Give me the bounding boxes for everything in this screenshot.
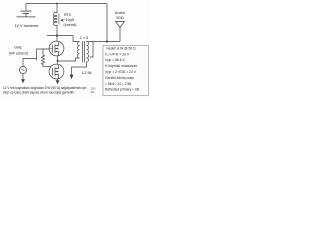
svg-text:12 V tek kaynaktan doğrudan 8: 12 V tek kaynaktan doğrudan 8 W (50 Ω) s… <box>3 86 87 90</box>
transistor Q2 body <box>49 64 64 79</box>
svg-text:Hedef: 8 W @ 50 Ω: Hedef: 8 W @ 50 Ω <box>107 46 137 50</box>
resistor R1 <box>42 49 45 67</box>
node dot rail/antenna <box>106 40 108 42</box>
node dot midpoint <box>57 60 59 62</box>
RFC core line <box>58 14 60 25</box>
signal source V1 <box>19 66 26 73</box>
ground bar under battery <box>17 16 36 18</box>
wire gate loop bottom <box>43 66 51 68</box>
spec box frame <box>103 46 149 96</box>
ground arrow under Q2 <box>56 80 60 84</box>
wire secondary top to antenna node <box>87 41 121 43</box>
wire drain node horizontal <box>47 35 73 37</box>
svg-text:V ₀=√P·R = 20 V: V ₀=√P·R = 20 V <box>105 52 130 56</box>
transformer T1 primary winding <box>77 42 79 58</box>
svg-text:12 V besleme: 12 V besleme <box>15 23 39 28</box>
ground arrow antenna return <box>70 75 74 79</box>
wire antenna lead <box>119 28 121 42</box>
wire gate loop left <box>37 49 50 61</box>
wire Q1 source to Q2 drain <box>57 56 59 65</box>
wire rail to RFC <box>56 4 58 14</box>
svg-text:3Ω: 3Ω <box>91 90 96 94</box>
svg-text:H köprüsü maksimum: H köprüsü maksimum <box>105 64 138 68</box>
transistor Q1 body <box>49 41 64 56</box>
svg-text:V pp = 56.6 V: V pp = 56.6 V <box>105 58 125 62</box>
antenna ANT symbol <box>116 22 125 28</box>
transformer T1 core <box>81 41 83 63</box>
spec box text <box>105 46 140 91</box>
svg-text:(RF sürücü): (RF sürücü) <box>9 51 28 55</box>
wire to transformer primary top <box>73 36 80 42</box>
svg-text:1 × 6: 1 × 6 <box>80 36 88 40</box>
svg-text:= 56.6 / 24 = 2.56: = 56.6 / 24 = 2.56 <box>105 82 131 86</box>
wire Q1 gate <box>49 48 52 50</box>
transistor Q1 mosfet symbol <box>52 45 54 53</box>
battery B1 <box>21 10 32 12</box>
svg-text:RFC: RFC <box>64 13 72 17</box>
svg-text:Gerekli dönüş oranı: Gerekli dönüş oranı <box>105 76 134 80</box>
wire Q2 source down <box>57 79 59 81</box>
caption <box>3 86 87 95</box>
wire source to ground <box>22 74 24 80</box>
transistor Q2 mosfet symbol <box>52 68 54 76</box>
svg-text:50Ω: 50Ω <box>116 15 123 20</box>
transformer T1 secondary winding <box>87 42 89 62</box>
svg-text:V pp = 2·V DD = 24 V: V pp = 2·V DD = 24 V <box>105 70 137 74</box>
wire top rail V+ <box>26 3 107 5</box>
svg-text:(önemli): (önemli) <box>64 23 77 27</box>
svg-text:Giriş: Giriş <box>14 46 22 50</box>
svg-text:step-up çıkış (trafo yapısı) d: step-up çıkış (trafo yapısı) devre topol… <box>3 91 75 95</box>
wire secondary bottom to ground <box>72 62 87 75</box>
RFC label arrow <box>60 19 63 22</box>
ground arrow under source <box>21 79 25 83</box>
svg-text:Reflected primary ≈ 9Ω: Reflected primary ≈ 9Ω <box>105 88 140 92</box>
wire midpoint to primary bottom <box>58 58 80 61</box>
node dot drain/RFC junction <box>56 34 58 36</box>
wire RFC to drain node <box>56 25 58 42</box>
wire rail to output node <box>106 4 108 42</box>
svg-text:~10μH: ~10μH <box>64 18 75 22</box>
svg-text:1:2.56: 1:2.56 <box>81 71 91 75</box>
wire secondary tap <box>90 42 94 58</box>
node dot rail/RFC junction <box>56 3 58 5</box>
inductor RFC coil <box>54 12 57 25</box>
battery B1 lead <box>25 4 27 11</box>
text labels <box>9 10 125 94</box>
wire source to gate loop <box>23 59 37 67</box>
